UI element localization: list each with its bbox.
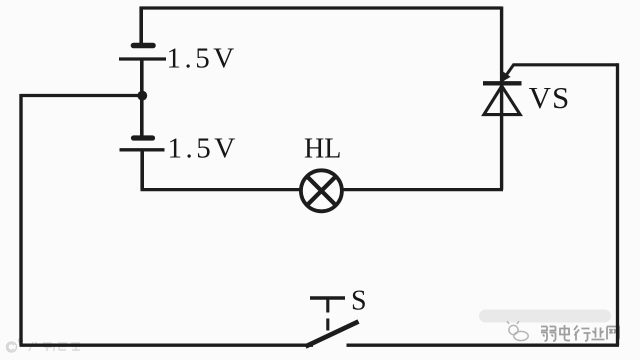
wire: branch to left rail	[20, 94, 142, 97]
top wire	[140, 6, 502, 9]
网	[607, 327, 619, 340]
thyristor gate arrowhead	[501, 72, 510, 83]
wire: stem below batteries	[140, 151, 144, 190]
svg-text:1.5V: 1.5V	[168, 133, 239, 165]
watermark mascot icon	[507, 321, 528, 341]
switch S actuator T-bar	[310, 296, 345, 300]
svg-text:HL: HL	[304, 134, 341, 165]
watermark plate bottom-right	[479, 310, 611, 323]
行	[574, 326, 591, 342]
battery B1 positive plate (long thin)	[119, 57, 166, 60]
lamp HL cross	[307, 177, 336, 206]
wire: bottom rail left of switch	[20, 344, 314, 347]
wire: gate horizontal	[513, 63, 618, 66]
svg-text:VS: VS	[529, 80, 571, 115]
弱	[541, 327, 547, 342]
wire: bottom of battery loop to lamp	[141, 188, 304, 191]
wire: battery stack vertical (top stem)	[139, 7, 143, 44]
svg-text:S: S	[351, 286, 367, 317]
switch S blade	[306, 322, 359, 347]
thyristor VS cathode bar	[483, 81, 522, 85]
node junction dot	[137, 91, 147, 101]
svg-text:1.5V: 1.5V	[167, 43, 238, 75]
thyristor gate diagonal lead	[503, 65, 514, 81]
电	[560, 325, 570, 341]
battery B2 positive plate (long thin)	[120, 148, 165, 151]
wire: right rail vertical	[616, 63, 619, 345]
watermark text 弱电行业网 (approximated strokes)	[541, 325, 619, 341]
wire: left rail vertical	[19, 94, 22, 345]
battery B2 negative plate (short thick)	[134, 135, 153, 140]
wire: anode/cathode vertical through thyristor	[500, 7, 503, 190]
wire: bottom rail right of switch	[347, 344, 620, 347]
wire: stem between cells	[140, 61, 144, 138]
battery B1 negative plate (short thick)	[134, 43, 154, 49]
switch S actuator stem (dashed)	[326, 299, 329, 331]
watermark bottom-left (faint logo and text)	[7, 339, 23, 353]
wire: lamp to right vertical	[340, 188, 503, 191]
lamp HL circle	[301, 170, 342, 211]
业	[592, 328, 605, 340]
thyristor VS triangle	[484, 86, 520, 115]
